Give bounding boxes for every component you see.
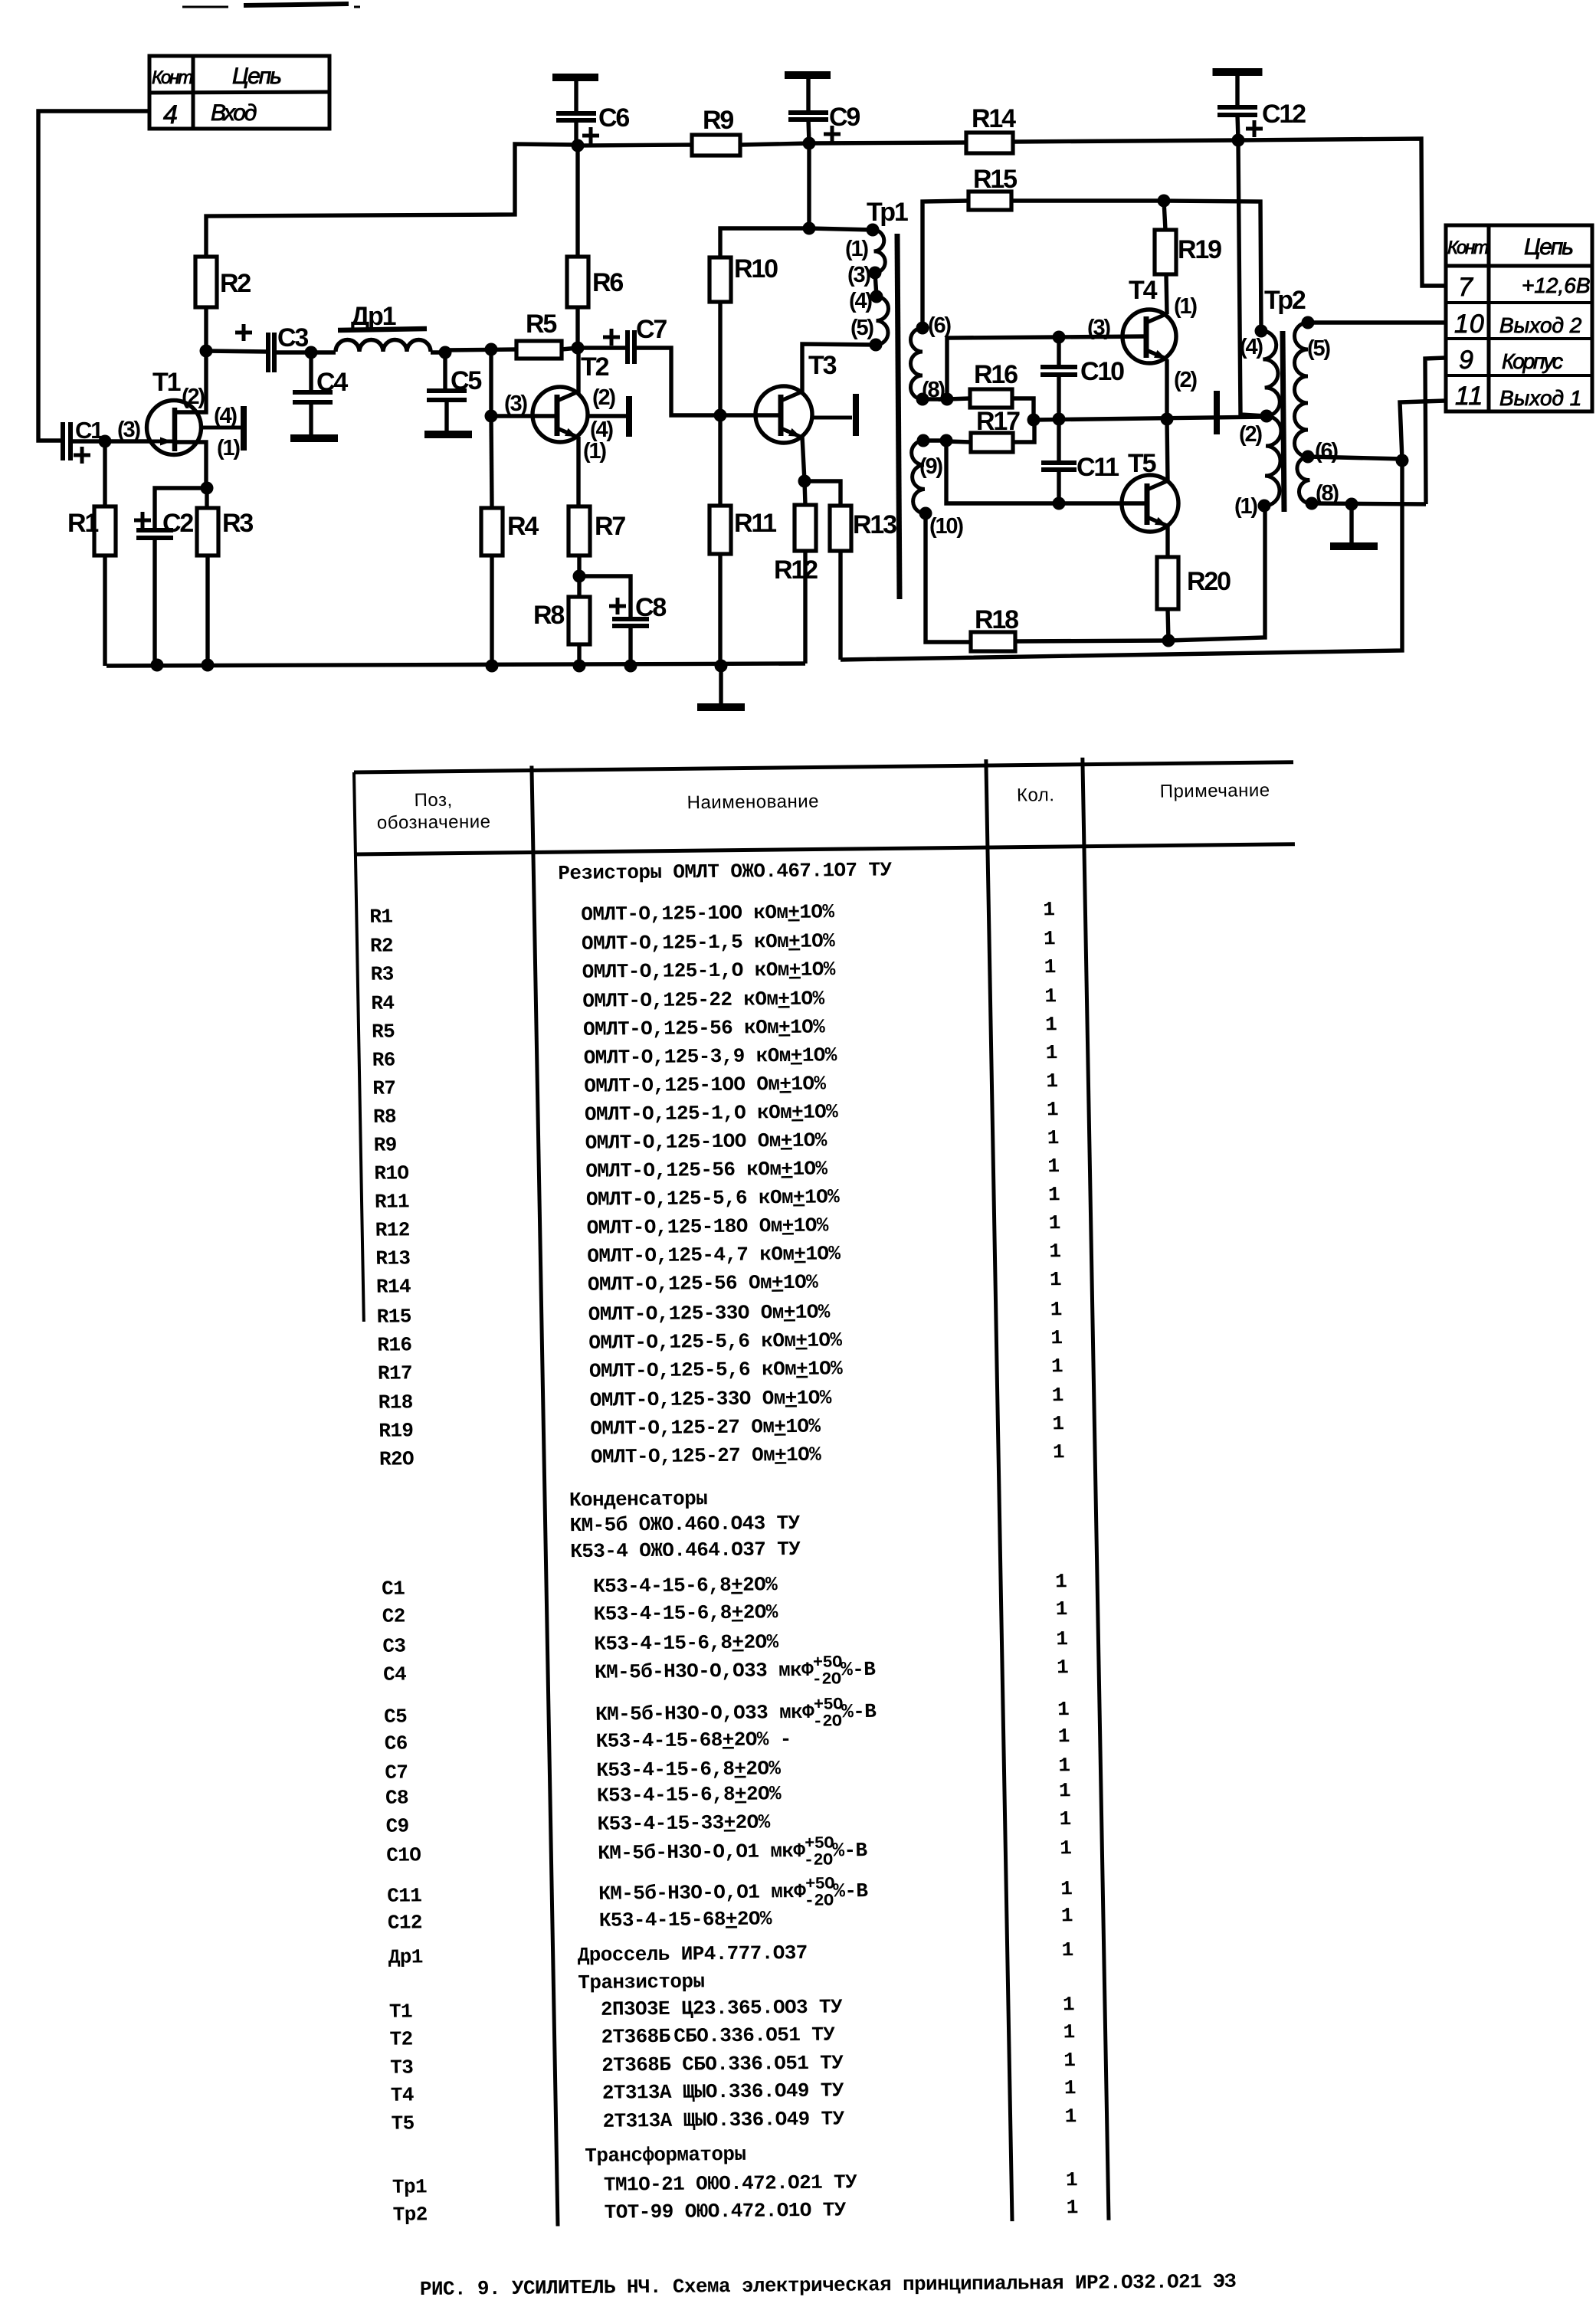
svg-text:T5: T5 [1128, 449, 1156, 478]
svg-text:Примечание: Примечание [1159, 780, 1270, 802]
svg-text:(3): (3) [1087, 316, 1110, 340]
wire R14 to C12 [1013, 140, 1238, 142]
resistor R9 [692, 135, 740, 156]
svg-text:R18: R18 [975, 605, 1018, 634]
svg-text:(5): (5) [1307, 336, 1330, 361]
svg-text:Трансформаторы: Трансформаторы [585, 2143, 746, 2168]
input connector table XT (Конт/Цепь) [149, 56, 329, 129]
svg-text:T1: T1 [389, 2000, 413, 2023]
svg-text:1: 1 [1066, 2168, 1078, 2191]
resistor R17 [946, 441, 971, 442]
svg-text:C11: C11 [387, 1884, 422, 1907]
wire node to contact 11 [1400, 401, 1445, 460]
svg-text:ОМЛТ-О,125-1,5 кОм+1О%: ОМЛТ-О,125-1,5 кОм+1О% [582, 929, 836, 955]
svg-text:R15: R15 [973, 165, 1017, 194]
svg-text:9: 9 [1459, 346, 1473, 375]
svg-text:ОМЛТ-О,125-18О Ом+1О%: ОМЛТ-О,125-18О Ом+1О% [586, 1214, 829, 1239]
svg-text:(3): (3) [847, 263, 870, 287]
svg-text:(9): (9) [919, 454, 942, 479]
svg-text:КМ-5б ОЖО.46О.О43 ТУ: КМ-5б ОЖО.46О.О43 ТУ [569, 1512, 801, 1537]
junction C6/bus/R6 [572, 139, 585, 152]
svg-text:R7: R7 [372, 1076, 396, 1099]
wire T3 emitter [802, 437, 805, 481]
svg-text:R6: R6 [592, 268, 623, 297]
svg-text:R12: R12 [375, 1218, 410, 1241]
svg-text:T5: T5 [391, 2112, 415, 2135]
svg-text:1: 1 [1066, 2196, 1078, 2219]
svg-text:T3: T3 [808, 351, 837, 380]
svg-text:1: 1 [1063, 2049, 1076, 2072]
svg-text:R10: R10 [734, 254, 778, 283]
svg-text:1: 1 [1048, 1183, 1060, 1206]
Tp1 pin 9 [917, 434, 930, 447]
svg-text:К53-4-15-6,8+2О%: К53-4-15-6,8+2О% [593, 1601, 778, 1626]
svg-text:C10: C10 [1080, 357, 1124, 386]
svg-text:C6: C6 [384, 1732, 408, 1755]
T2 case electrode [587, 414, 626, 418]
svg-text:1: 1 [1043, 898, 1055, 921]
svg-text:R11: R11 [375, 1190, 410, 1213]
resistor R1 [103, 441, 107, 506]
resistor R3 [205, 488, 208, 508]
main ground symbol [719, 666, 723, 704]
wire T2 base [491, 414, 558, 418]
wire pin 5 to contact 10 [1308, 320, 1445, 324]
ground C6 [552, 74, 598, 81]
Tp2 pin 2 [1260, 410, 1273, 423]
svg-text:1: 1 [1047, 1126, 1059, 1149]
svg-text:К53-4-15-6,8+2О%: К53-4-15-6,8+2О% [597, 1782, 782, 1807]
junction R8 [573, 660, 586, 673]
Tp1 winding III (9-10) [912, 441, 926, 513]
wire to Tp2 pin 1 [1168, 506, 1265, 641]
junction ground bus R11 [715, 660, 728, 673]
svg-text:C8: C8 [385, 1786, 409, 1809]
capacitor C4 [309, 352, 313, 392]
svg-text:C1: C1 [382, 1577, 405, 1600]
wire pin 8 to R16 [923, 397, 947, 401]
svg-text:Поз,: Поз, [414, 790, 452, 811]
svg-text:(1): (1) [217, 436, 240, 460]
svg-text:T2: T2 [389, 2027, 413, 2050]
svg-text:R13: R13 [853, 510, 896, 539]
svg-text:R1: R1 [369, 905, 393, 928]
svg-text:1: 1 [1064, 2105, 1077, 2128]
transistor T3 (2Т368Б) [755, 386, 812, 443]
wire choke to node [431, 350, 445, 354]
Tp2 pin 8 [1306, 497, 1319, 510]
Tp1 pin 8 [916, 393, 929, 406]
svg-text:К53-4-15-33+2О%: К53-4-15-33+2О% [597, 1810, 771, 1835]
wire bus to pin 7 [1238, 139, 1446, 286]
svg-text:1: 1 [1061, 1938, 1073, 1961]
svg-text:ОМЛТ-О,125-56 кОм+1О%: ОМЛТ-О,125-56 кОм+1О% [585, 1157, 828, 1182]
T3 case electrode [811, 416, 852, 420]
junction T1 source / C2 / R3 [201, 482, 214, 495]
svg-text:1: 1 [1044, 927, 1056, 950]
svg-text:ОМЛТ-О,125-1ОО Ом+1О%: ОМЛТ-О,125-1ОО Ом+1О% [585, 1129, 827, 1154]
svg-text:Конт: Конт [1447, 238, 1488, 258]
svg-text:Вход: Вход [211, 100, 257, 126]
svg-text:C4: C4 [383, 1663, 407, 1686]
wire T5 collector [1167, 419, 1168, 480]
output connector table (Конт/Цепь) [1446, 225, 1592, 411]
transistor T2 (2Т368Б) [533, 387, 588, 442]
Tp1 winding I (1-3) [873, 230, 885, 273]
svg-text:R16: R16 [974, 360, 1018, 389]
svg-text:R17: R17 [378, 1362, 413, 1384]
wire R9 to C9 [740, 143, 809, 145]
svg-text:ОМЛТ-О,125-1,О кОм+1О%: ОМЛТ-О,125-1,О кОм+1О% [585, 1100, 839, 1126]
wire input from pin 4 to C1 [38, 111, 149, 441]
svg-text:(4): (4) [214, 404, 237, 428]
junction C10/C11 [1053, 413, 1066, 426]
junction T4/T5 midpoint [1161, 413, 1174, 426]
junction C11 bottom [1053, 497, 1066, 510]
svg-text:(3): (3) [117, 418, 140, 442]
svg-text:(4): (4) [849, 289, 872, 313]
wire pin 10 down [926, 513, 971, 642]
svg-text:T4: T4 [1129, 276, 1158, 305]
svg-text:Дроссель ИР4.777.О37: Дроссель ИР4.777.О37 [577, 1942, 808, 1967]
ground symbol Tp2 [1349, 504, 1353, 543]
junction base branch [485, 343, 498, 356]
resistor R2 [195, 257, 217, 307]
capacitor C9 [806, 75, 810, 113]
junction T2 base / R4 [485, 410, 498, 423]
svg-text:2Т313А ЩЫО.336.О49 ТУ: 2Т313А ЩЫО.336.О49 ТУ [602, 2079, 845, 2104]
svg-text:R17: R17 [976, 407, 1020, 436]
svg-text:C1О: C1О [386, 1843, 421, 1866]
svg-text:Наименование: Наименование [687, 791, 819, 813]
svg-text:К53-4-15-6,8+2О%: К53-4-15-6,8+2О% [596, 1757, 782, 1782]
svg-text:C5: C5 [384, 1705, 408, 1728]
svg-text:T2: T2 [581, 352, 609, 382]
resistor R20 [1157, 557, 1178, 609]
svg-text:R5: R5 [372, 1020, 395, 1043]
resistor R8 [577, 576, 581, 597]
junction R7/R8/C8 [573, 570, 586, 583]
Tp2 winding A (4-2) [1261, 331, 1280, 416]
svg-text:R2: R2 [220, 269, 251, 298]
resistor R19 [1164, 201, 1165, 230]
svg-text:(2): (2) [182, 385, 205, 409]
wire bus to Tp1 pin 1 [809, 228, 873, 230]
svg-text:1: 1 [1055, 1597, 1067, 1620]
svg-text:R5: R5 [526, 310, 556, 339]
svg-text:К53-4 ОЖО.464.О37 ТУ: К53-4 ОЖО.464.О37 ТУ [570, 1538, 801, 1563]
svg-text:(1): (1) [1234, 494, 1257, 519]
svg-text:Др1: Др1 [351, 302, 396, 331]
svg-text:К53-4-15-68+2О%: К53-4-15-68+2О% [599, 1907, 773, 1932]
node T1 drain / R2 / C3 [200, 345, 213, 358]
Tp1 pin 10 [919, 507, 932, 520]
svg-text:ОМЛТ-О,125-5,6 кОм+1О%: ОМЛТ-О,125-5,6 кОм+1О% [586, 1185, 841, 1211]
svg-text:(10): (10) [929, 514, 963, 539]
wire to R10 [720, 228, 809, 257]
wire down to T2 base [489, 349, 493, 416]
svg-text:T1: T1 [152, 368, 181, 397]
svg-text:Выход 2: Выход 2 [1499, 313, 1582, 337]
svg-text:ТМ1О-21 ОЮО.472.О21 ТУ: ТМ1О-21 ОЮО.472.О21 ТУ [604, 2171, 858, 2197]
svg-text:Конт.: Конт. [152, 67, 195, 88]
svg-text:C5: C5 [451, 366, 481, 395]
svg-text:1: 1 [1060, 1837, 1072, 1860]
wire C7 to T3 base [634, 348, 781, 415]
svg-text:1: 1 [1060, 1877, 1073, 1900]
svg-text:R19: R19 [379, 1419, 414, 1442]
wire T3 collector to Tp1 pin 5 [802, 344, 876, 393]
svg-text:2П3О3Е Ц23.365.ОО3 ТУ: 2П3О3Е Ц23.365.ОО3 ТУ [601, 1995, 844, 2020]
capacitor C12 [1235, 72, 1239, 107]
svg-text:(6): (6) [1315, 439, 1338, 464]
wire pin8 up to T4 base [947, 336, 1147, 399]
svg-text:R13: R13 [375, 1247, 411, 1270]
Tp1 pin 4 [870, 290, 883, 303]
resistor R12 [805, 481, 805, 505]
svg-text:1: 1 [1050, 1268, 1062, 1291]
svg-text:C2: C2 [162, 509, 193, 538]
junction R5/R6/T2 collector [572, 342, 585, 355]
svg-text:R19: R19 [1178, 235, 1221, 264]
resistor R7 [569, 506, 590, 555]
Tp1 core [897, 234, 900, 599]
junction R3 [202, 659, 215, 672]
svg-text:Транзисторы: Транзисторы [578, 1970, 705, 1994]
junction R10 row [803, 222, 816, 235]
capacitor C7 [625, 330, 630, 364]
svg-text:Тр2: Тр2 [1264, 286, 1306, 315]
svg-text:C7: C7 [636, 315, 667, 344]
svg-text:C11: C11 [1077, 453, 1119, 482]
parts list table [354, 755, 1319, 2228]
Tp1 winding II (6-8) [910, 328, 923, 399]
wire +12V bus [578, 145, 692, 146]
svg-text:C4: C4 [316, 368, 348, 397]
junction ground Tp2 [1345, 498, 1358, 511]
svg-text:Конденсаторы: Конденсаторы [569, 1487, 708, 1512]
wire +12V feed to R2 [206, 144, 578, 257]
Tp2 pin 1 [1258, 500, 1271, 513]
transistor T4 (2Т313А) [1122, 310, 1176, 363]
svg-text:R2О: R2О [379, 1447, 415, 1470]
svg-text:R15: R15 [376, 1305, 411, 1328]
svg-text:1: 1 [1050, 1326, 1063, 1349]
svg-text:(2): (2) [1174, 368, 1197, 392]
wire R15 to T4 branch [1011, 198, 1164, 202]
svg-text:(3): (3) [504, 392, 527, 416]
svg-text:R4: R4 [507, 512, 539, 541]
capacitor C1 [61, 422, 65, 460]
svg-text:1: 1 [1053, 1440, 1065, 1463]
svg-text:ОМЛТ-О,125-1ОО Ом+1О%: ОМЛТ-О,125-1ОО Ом+1О% [584, 1072, 827, 1097]
svg-text:(1): (1) [583, 439, 606, 464]
junction R4 [486, 660, 499, 673]
svg-text:1: 1 [1055, 1570, 1067, 1593]
Tp1 pin 5 [870, 339, 883, 352]
wire to C2 [155, 488, 207, 530]
Tp2 winding B (5-6) [1295, 323, 1309, 457]
capacitor C6 [574, 77, 578, 113]
svg-text:ОМЛТ-О,125-22 кОм+1О%: ОМЛТ-О,125-22 кОм+1О% [582, 987, 825, 1012]
wire to Tp2 pin 4 [1164, 201, 1261, 331]
junction C9 [803, 137, 816, 150]
svg-text:Тр1: Тр1 [392, 2175, 428, 2198]
svg-text:1: 1 [1052, 1412, 1064, 1435]
Tp2 pin 5 [1302, 316, 1315, 329]
svg-text:+12,6В: +12,6В [1522, 274, 1591, 297]
wire T4 emitter [1165, 359, 1168, 419]
svg-text:К53-4-15-6,8+2О%: К53-4-15-6,8+2О% [593, 1573, 778, 1598]
scan artifact marks [182, 6, 228, 8]
svg-text:1: 1 [1063, 1993, 1075, 2016]
svg-text:1: 1 [1057, 1656, 1069, 1679]
junction R20 bottom [1162, 634, 1175, 647]
svg-text:R9: R9 [703, 106, 733, 135]
svg-text:C12: C12 [388, 1911, 423, 1934]
svg-text:Др1: Др1 [388, 1945, 423, 1968]
svg-text:Кол.: Кол. [1017, 785, 1055, 806]
svg-text:R16: R16 [377, 1333, 412, 1356]
wire C1 to T1 gate [70, 439, 150, 443]
junction R12/R13 [798, 475, 811, 488]
resistor R14 [966, 133, 1013, 153]
svg-text:(2): (2) [1239, 422, 1262, 447]
T1 case electrode [201, 426, 241, 430]
svg-text:R6: R6 [372, 1048, 395, 1071]
capacitor C8 [579, 576, 631, 619]
svg-text:1: 1 [1051, 1355, 1063, 1378]
svg-text:1: 1 [1059, 1807, 1071, 1830]
wire R15 to pin 6 [923, 201, 968, 328]
svg-text:C3: C3 [382, 1634, 406, 1657]
svg-text:Резисторы ОМЛТ ОЖО.467.1О7 ТУ: Резисторы ОМЛТ ОЖО.467.1О7 ТУ [558, 858, 893, 885]
svg-text:ТОТ-99 ОЮО.472.О1О ТУ: ТОТ-99 ОЮО.472.О1О ТУ [604, 2198, 847, 2223]
Tp2 pin 4 [1255, 325, 1268, 338]
ground C9 [785, 71, 831, 79]
case bar T4/T5 [1214, 391, 1220, 434]
svg-text:1: 1 [1049, 1240, 1061, 1263]
junction output 1 node [1396, 454, 1409, 467]
resistor R5 [516, 341, 562, 359]
Tp1 pin 6 [916, 322, 929, 335]
wire pin 9 to R17 branch [923, 438, 946, 442]
svg-text:C8: C8 [635, 593, 666, 622]
wire C9 node down [807, 143, 811, 228]
svg-text:1: 1 [1058, 1754, 1070, 1777]
transistor T1 (FET 2П303Е) [147, 401, 202, 455]
svg-text:1: 1 [1057, 1698, 1070, 1721]
svg-text:T3: T3 [390, 2056, 414, 2079]
junction C8 [624, 660, 637, 673]
svg-text:1: 1 [1061, 1904, 1073, 1927]
svg-text:R3: R3 [222, 509, 253, 538]
svg-text:R9: R9 [373, 1133, 397, 1156]
caption [420, 2270, 1236, 2301]
choke Др1 [311, 350, 336, 354]
svg-text:1: 1 [1045, 1041, 1057, 1064]
svg-text:R11: R11 [734, 509, 776, 538]
capacitor C2 [136, 528, 173, 532]
svg-text:(1): (1) [1174, 294, 1197, 319]
svg-text:C9: C9 [829, 103, 860, 132]
svg-text:ОМЛТ-О,125-33О Ом+1О%: ОМЛТ-О,125-33О Ом+1О% [589, 1386, 832, 1411]
svg-text:1: 1 [1050, 1298, 1062, 1321]
svg-text:ОМЛТ-О,125-3,9 кОм+1О%: ОМЛТ-О,125-3,9 кОм+1О% [583, 1044, 837, 1070]
svg-text:обозначение: обозначение [377, 811, 491, 834]
svg-text:C2: C2 [382, 1604, 405, 1627]
svg-text:C12: C12 [1262, 100, 1306, 129]
svg-text:1: 1 [1056, 1627, 1068, 1650]
wire node to C3 [206, 351, 268, 352]
ground bus wire [107, 664, 805, 666]
svg-text:Цепь: Цепь [1524, 234, 1573, 260]
resistor R10 [710, 257, 731, 302]
wire R5 node to C7 [578, 346, 628, 349]
svg-text:1: 1 [1063, 2020, 1075, 2043]
transistor T5 (2Т313А) [1122, 475, 1178, 532]
svg-text:К53-4-15-68+2О% -: К53-4-15-68+2О% - [595, 1728, 791, 1753]
junction C2 [151, 659, 164, 672]
svg-text:R2: R2 [370, 934, 394, 957]
junction C12 [1232, 134, 1245, 147]
svg-text:R18: R18 [378, 1391, 413, 1414]
ground C5 [424, 431, 472, 438]
svg-text:R14: R14 [972, 104, 1016, 133]
svg-text:К53-4-15-6,8+2О%: К53-4-15-6,8+2О% [594, 1630, 779, 1656]
svg-text:1: 1 [1045, 1013, 1057, 1036]
svg-text:Выход 1: Выход 1 [1499, 386, 1581, 410]
svg-text:ОМЛТ-О,125-1,О кОм+1О%: ОМЛТ-О,125-1,О кОм+1О% [582, 958, 836, 984]
ground C4 [290, 434, 338, 442]
wire to contact 9 [1425, 358, 1445, 504]
capacitor C10 [1057, 337, 1060, 367]
svg-text:2Т368Б СБО.336.О51 ТУ: 2Т368Б СБО.336.О51 ТУ [601, 2051, 844, 2076]
junction R16/R17 node [1027, 414, 1041, 427]
svg-text:10: 10 [1454, 310, 1485, 339]
svg-text:1: 1 [1047, 1155, 1060, 1178]
svg-text:4: 4 [163, 100, 177, 129]
junction C1/R1 [99, 435, 112, 448]
svg-text:R8: R8 [373, 1105, 397, 1128]
wire R18 to R20 [1015, 641, 1168, 641]
resistor R11 [718, 415, 722, 506]
svg-text:R3: R3 [370, 962, 394, 985]
svg-text:ОМЛТ-О,125-4,7 кОм+1О%: ОМЛТ-О,125-4,7 кОм+1О% [587, 1242, 841, 1268]
svg-text:(6): (6) [928, 313, 951, 338]
svg-text:1: 1 [1044, 985, 1057, 1008]
svg-text:R12: R12 [774, 555, 818, 585]
wire C3 to node [274, 350, 311, 354]
svg-text:11: 11 [1455, 382, 1483, 411]
svg-text:2Т368Б СБО.336.О51 ТУ: 2Т368Б СБО.336.О51 ТУ [601, 2023, 835, 2049]
svg-text:Цепь: Цепь [232, 64, 281, 89]
resistor R16 [947, 398, 970, 399]
Tp2 core [1283, 331, 1284, 512]
svg-text:T4: T4 [391, 2083, 415, 2106]
junction C3/C4 [305, 346, 318, 359]
ground C12 [1213, 68, 1263, 76]
svg-text:R7: R7 [595, 512, 625, 541]
svg-text:1: 1 [1059, 1779, 1071, 1802]
svg-text:R1О: R1О [374, 1162, 409, 1185]
svg-text:1: 1 [1046, 1070, 1058, 1093]
svg-text:(5): (5) [850, 316, 873, 340]
svg-text:C7: C7 [385, 1761, 408, 1784]
svg-text:2Т313А ЩЫО.336.О49 ТУ: 2Т313А ЩЫО.336.О49 ТУ [602, 2107, 845, 2132]
junction R19 [1158, 195, 1171, 208]
svg-text:ОМЛТ-О,125-27 Ом+1О%: ОМЛТ-О,125-27 Ом+1О% [591, 1443, 822, 1469]
